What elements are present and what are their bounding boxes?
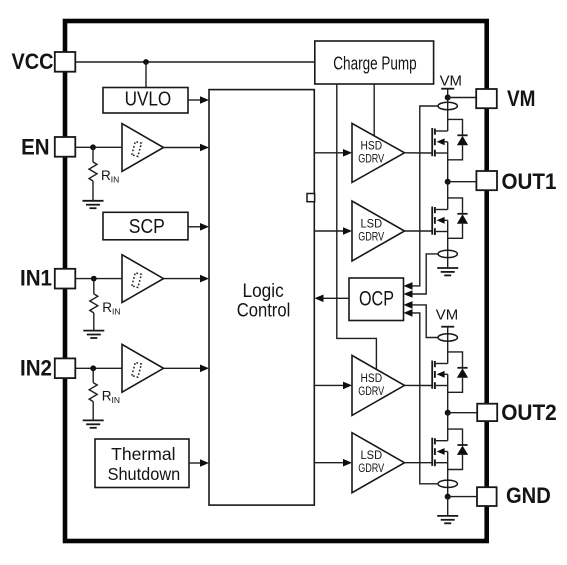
wire Q4 source down through sense to GND node — [447, 463, 449, 497]
gate driver HSD GDRV 2 — [352, 355, 405, 415]
transistor Q3 high-side OUT2 — [432, 352, 448, 389]
node GND junction — [445, 494, 451, 500]
wire HSD GDRV 2 to Q3 gate — [405, 384, 433, 386]
node VCC-UVLO junction — [143, 59, 149, 65]
wire OUT1 node to OUT1 pin — [448, 181, 477, 183]
VM rail 2 bar — [441, 326, 454, 328]
ground (IN2) — [83, 420, 104, 427]
resistor R_IN (IN2) — [89, 383, 120, 405]
wire OUT1 node down to Q2 drain — [447, 182, 449, 198]
svg-text:VM: VM — [440, 73, 462, 90]
pin OUT2 — [477, 404, 497, 421]
pin IN1 — [55, 269, 76, 289]
transistor Q2 low-side OUT1 — [432, 198, 448, 235]
wire IN2 junction down to resistor — [92, 368, 94, 382]
wire HSD GDRV 1 to Q1 gate — [405, 152, 433, 154]
Charge Pump block — [315, 41, 434, 84]
gate driver LSD GDRV 2 — [352, 433, 405, 493]
wire IN2 comparator to Logic Control — [164, 367, 204, 369]
ground (LS1 source) — [437, 268, 458, 275]
wire Thermal Shutdown to Logic Control — [189, 462, 203, 464]
svg-text:Shutdown: Shutdown — [108, 464, 181, 484]
svg-text:VCC: VCC — [12, 49, 54, 74]
svg-text:IN2: IN2 — [20, 356, 52, 381]
wire IN1 junction down to resistor — [93, 279, 95, 294]
wire resistor to ground (IN2) — [92, 402, 94, 421]
transistor Q4 low-side OUT2 — [432, 429, 448, 466]
svg-text:LSD: LSD — [361, 219, 383, 231]
svg-text:GND: GND — [506, 483, 551, 508]
ground (IN1) — [83, 331, 104, 338]
IC outer boundary box — [65, 21, 487, 541]
comparator IN2 with hysteresis — [122, 344, 164, 392]
current sense element (HS2) — [438, 334, 457, 341]
gate driver LSD GDRV 1 — [352, 201, 405, 261]
wire sense HS2 to OCP input 3 — [410, 305, 439, 338]
wire Logic Control to LSD GDRV 1 — [314, 230, 346, 232]
ground (GND node) — [437, 516, 458, 523]
svg-text:Logic: Logic — [243, 281, 284, 302]
wire OCP output to Logic Control — [320, 297, 349, 299]
pin VM — [476, 89, 497, 108]
wire GND node down to ground — [447, 497, 449, 516]
wire sense HS1 to OCP input 1 — [410, 106, 439, 286]
gate driver HSD GDRV 1 — [352, 123, 405, 182]
comparator IN1 with hysteresis — [122, 255, 164, 303]
svg-text:OUT1: OUT1 — [502, 169, 557, 194]
svg-text:Thermal: Thermal — [111, 444, 175, 464]
VM rail 1 bar — [441, 88, 454, 90]
pin OUT1 — [476, 171, 497, 190]
node OUT2 — [445, 410, 451, 416]
svg-text:SCP: SCP — [129, 216, 165, 238]
wire IN1 pin to comparator — [75, 278, 122, 280]
resistor R_IN (IN1) — [90, 294, 121, 316]
node OUT1 — [445, 179, 451, 185]
current sense element (LS1) — [438, 250, 457, 257]
wire SCP output to Logic Control — [188, 226, 203, 228]
svg-text:OUT2: OUT2 — [501, 400, 557, 425]
svg-text:VM: VM — [507, 86, 536, 111]
SCP block — [103, 212, 188, 240]
node IN1 junction — [91, 276, 97, 282]
svg-text:GDRV: GDRV — [358, 463, 384, 475]
wire LSD GDRV 1 to Q2 gate — [405, 230, 433, 232]
wire Logic Control to HSD GDRV 2 — [314, 384, 346, 386]
wire junction down to UVLO — [145, 62, 147, 88]
wire resistor to ground (IN1) — [93, 313, 95, 331]
wire VM rail 2 down through sense to Q3 drain — [447, 327, 449, 352]
UVLO block — [103, 88, 188, 114]
ground (EN) — [83, 201, 104, 208]
wire Charge Pump down and over to HSD GDRV 2 — [337, 84, 377, 369]
node VM junction — [445, 95, 451, 101]
diode D1 body diode Q1 — [448, 119, 468, 159]
svg-text:IN1: IN1 — [20, 266, 52, 291]
svg-text:GDRV: GDRV — [358, 386, 384, 398]
svg-text:HSD: HSD — [361, 140, 383, 152]
wire OUT2 node down to Q4 drain — [447, 413, 449, 429]
resistor R_IN (EN) — [89, 162, 119, 185]
wire GND node to GND pin — [448, 496, 477, 498]
pin VCC — [55, 52, 76, 72]
diode D4 body diode Q4 — [448, 429, 468, 469]
svg-text:LSD: LSD — [361, 450, 383, 462]
svg-text:OCP: OCP — [359, 287, 394, 311]
comparator EN with hysteresis — [122, 124, 164, 172]
svg-text:Control: Control — [237, 300, 291, 321]
node IN2 junction — [90, 365, 96, 371]
wire resistor to ground (EN) — [92, 181, 94, 201]
transistor Q1 high-side OUT1 — [432, 119, 448, 156]
wire UVLO output to Logic Control — [188, 99, 203, 101]
wire Q1 source to OUT1 node — [447, 153, 449, 182]
wire VM rail down to node — [447, 89, 449, 98]
pin IN2 — [55, 358, 76, 378]
svg-text:Charge Pump: Charge Pump — [333, 53, 416, 73]
wire IN2 pin to comparator — [75, 367, 122, 369]
wire Q2 source down through sense to ground — [447, 232, 449, 269]
current sense element (LS2) — [438, 480, 457, 487]
svg-text:HSD: HSD — [361, 373, 383, 385]
svg-text:UVLO: UVLO — [125, 88, 172, 110]
wire EN pin to comparator — [75, 146, 122, 148]
node EN junction — [90, 144, 96, 150]
wire VM node to VM pin — [448, 97, 476, 99]
wire LSD GDRV 2 to Q4 gate — [405, 462, 433, 464]
wire IN1 comparator to Logic Control — [164, 278, 204, 280]
wire VM node down through sense to Q1 drain — [447, 98, 449, 120]
wire EN junction down to resistor — [92, 147, 94, 162]
diode D3 body diode Q3 — [448, 352, 468, 392]
diode D2 body diode Q2 — [448, 198, 468, 238]
wire sense LS1 to OCP input 2 — [410, 254, 439, 294]
svg-text:VM: VM — [436, 307, 458, 324]
wire Logic Control to HSD GDRV 1 — [314, 152, 346, 154]
wire Logic Control to LSD GDRV 2 — [314, 462, 346, 464]
svg-text:EN: EN — [21, 135, 49, 160]
OCP block — [349, 278, 404, 321]
Logic Control block — [209, 90, 314, 506]
current sense element (HS1) — [438, 102, 457, 109]
Thermal Shutdown block — [95, 439, 189, 488]
wire Charge Pump down to HSD GDRV 1 — [373, 84, 375, 136]
wire OUT2 node to OUT2 pin — [448, 412, 477, 414]
pin GND — [477, 487, 497, 506]
small stub square on Logic Control right edge — [307, 194, 315, 202]
pin EN — [55, 137, 76, 157]
wire VCC pin to Charge Pump — [75, 61, 315, 63]
wire EN comparator to Logic Control — [164, 147, 204, 149]
svg-text:GDRV: GDRV — [358, 232, 384, 244]
wire sense LS2 to OCP input 4 — [410, 313, 439, 484]
svg-text:GDRV: GDRV — [358, 153, 384, 165]
wire Q3 source to OUT2 node — [447, 386, 449, 413]
